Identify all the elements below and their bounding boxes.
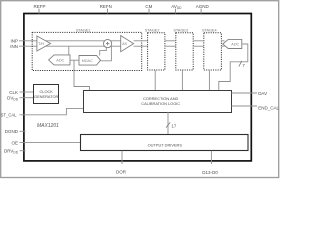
svg-text:STAGE1: STAGE1 xyxy=(76,28,91,32)
page frame xyxy=(1,1,279,178)
svg-text:DGND: DGND xyxy=(5,129,19,134)
svg-text:OE: OE xyxy=(11,141,18,146)
summing junction xyxy=(104,40,112,48)
svg-text:MAX1201: MAX1201 xyxy=(37,123,59,129)
svg-text:CM: CM xyxy=(145,4,152,9)
svg-text:ADC: ADC xyxy=(56,58,64,62)
wire MDAC to summer xyxy=(100,48,107,56)
wire rail tap down to ADC xyxy=(68,46,70,55)
svg-text:GENERATOR: GENERATOR xyxy=(34,94,58,99)
svg-text:OUTPUT DRIVERS: OUTPUT DRIVERS xyxy=(148,142,183,147)
svg-text:T/H: T/H xyxy=(38,42,44,46)
ADC of stage1 xyxy=(49,55,70,65)
svg-text:AGND: AGND xyxy=(196,4,210,9)
clock generator box xyxy=(34,85,59,104)
wire DVDD xyxy=(20,97,34,99)
wire DRVDD stub xyxy=(20,150,26,152)
pin AVDD tick xyxy=(174,9,176,14)
wire CLK xyxy=(20,91,34,93)
wire INN rail xyxy=(19,45,104,47)
svg-text:DOR: DOR xyxy=(116,170,127,175)
stage2 dashed box xyxy=(148,33,165,70)
wire stage3 to correction logic xyxy=(181,70,183,91)
bus slash 7 xyxy=(239,61,242,67)
pin AGND tick xyxy=(200,9,202,14)
svg-text:STAGE2: STAGE2 xyxy=(145,28,160,32)
wire stage4 to correction logic xyxy=(208,70,210,91)
wire stage1 to correction logic xyxy=(74,60,90,91)
wire DAV xyxy=(232,92,258,94)
svg-text:D13-D0: D13-D0 xyxy=(202,170,218,175)
correction and calibration logic box xyxy=(84,91,232,113)
wire ST_CAL xyxy=(20,108,85,114)
bus correction logic to output drivers xyxy=(167,112,169,135)
svg-text:DAV: DAV xyxy=(258,91,267,96)
T/H amplifier xyxy=(37,36,51,51)
stage3 dashed box xyxy=(176,33,193,70)
wire stage2 to stage3 rails xyxy=(165,40,176,42)
wire stage3 to stage4 rails xyxy=(193,40,204,42)
svg-text:STAGE4: STAGE4 xyxy=(202,28,217,32)
wire END_CAL xyxy=(232,105,258,107)
wire DGND stub xyxy=(20,130,26,132)
svg-text:CLK: CLK xyxy=(9,90,18,95)
wire final ADC to correction logic xyxy=(219,44,248,91)
svg-text:CALIBRATION LOGIC: CALIBRATION LOGIC xyxy=(141,101,180,106)
8X amplifier xyxy=(121,36,134,52)
wire INP rail xyxy=(19,40,104,42)
stage4 dashed box xyxy=(204,33,222,70)
svg-text:17: 17 xyxy=(171,123,176,128)
svg-text:REFP: REFP xyxy=(33,4,45,9)
wire summer to 8X rails xyxy=(111,40,121,42)
IC outline box MAX1201 xyxy=(24,14,251,161)
svg-text:MDAC: MDAC xyxy=(82,59,93,63)
svg-text:REFN: REFN xyxy=(100,4,112,9)
wire D13-D0 xyxy=(210,151,212,164)
wire ADC to MDAC xyxy=(70,59,79,61)
wire OE xyxy=(20,142,81,144)
wire stage4 to final ADC rails xyxy=(221,40,224,42)
svg-text:INN: INN xyxy=(10,44,18,49)
svg-text:CLOCK: CLOCK xyxy=(39,89,53,94)
final ADC xyxy=(223,39,242,48)
svg-text:STAGE3: STAGE3 xyxy=(173,28,188,32)
output drivers box xyxy=(81,135,249,151)
svg-text:END_CAL: END_CAL xyxy=(258,105,279,110)
pin REFN tick xyxy=(107,9,109,14)
MDAC of stage1 xyxy=(79,56,101,66)
pin CM tick xyxy=(148,9,150,14)
svg-text:INP: INP xyxy=(10,39,18,44)
stage1 dashed box xyxy=(32,32,142,70)
svg-text:8X: 8X xyxy=(122,42,127,46)
wire 8X to stage2 rails xyxy=(134,40,148,42)
wire rail tap to MDAC input xyxy=(101,46,112,61)
wire DOR xyxy=(121,151,123,164)
pin REFP tick xyxy=(38,9,40,14)
wire stage2 to correction logic xyxy=(154,70,156,91)
svg-text:ST_CAL: ST_CAL xyxy=(1,112,17,117)
svg-text:ADC: ADC xyxy=(231,43,239,47)
bus slash 17 xyxy=(166,122,170,127)
